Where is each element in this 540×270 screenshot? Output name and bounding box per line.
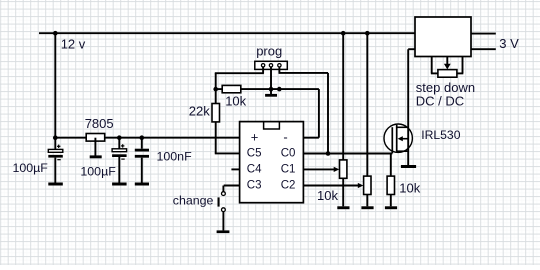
wire R3 bottom <box>390 195 392 207</box>
svg-text:C1: C1 <box>281 163 296 175</box>
resistor R3 10k body <box>387 176 394 194</box>
ground switch <box>217 230 230 233</box>
capacitor 100uF #2 plus sign <box>121 145 124 147</box>
node cap1 junction <box>53 135 58 140</box>
wire 22k to C5 <box>215 122 217 153</box>
transistor Q1 body arrow <box>398 136 403 141</box>
svg-text:12 v: 12 v <box>61 36 86 51</box>
svg-text:prog: prog <box>256 44 282 59</box>
capacitor 100uF #1 plus sign <box>57 145 60 147</box>
transistor Q1 body stub <box>400 138 408 140</box>
wire cap2 top lead <box>118 138 120 149</box>
svg-text:C5: C5 <box>247 147 262 159</box>
capacitor 100uF #2 minus sign <box>121 158 124 160</box>
svg-text:100µF: 100µF <box>13 161 49 175</box>
node pot1 rail junction <box>341 31 346 36</box>
capacitor 100uF #2 plus plate <box>112 149 127 152</box>
wiper arrow pot2 <box>358 183 364 188</box>
ground cap2 <box>112 183 127 186</box>
transistor Q1 gate bar <box>391 127 393 153</box>
transistor Q1 IRL530 circle <box>384 124 412 152</box>
svg-text:IRL530: IRL530 <box>421 128 461 142</box>
svg-text:100nF: 100nF <box>157 150 193 164</box>
node pot2 rail junction <box>365 31 370 36</box>
potentiometer pot1 body <box>340 160 347 178</box>
ground cap1 <box>48 183 63 186</box>
wire +5V rail <box>55 137 239 139</box>
wire prog pin2 to gnd <box>270 67 272 94</box>
wire cap3 top lead <box>141 138 143 149</box>
svg-text:change: change <box>173 194 214 208</box>
capacitor 100uF #1 plus plate <box>48 149 63 152</box>
svg-text:10k: 10k <box>225 94 246 109</box>
trimmer wiper stem <box>446 57 448 65</box>
capacitor 100uF #1 minus plate <box>48 155 63 158</box>
wire module out1 <box>471 33 496 35</box>
wire C3 to switch <box>222 186 224 192</box>
ground pot1 <box>337 206 349 209</box>
node mystery junction <box>277 87 282 92</box>
svg-text:C3: C3 <box>247 179 262 191</box>
ground Q1 source <box>401 165 416 168</box>
wire 12V top rail <box>39 32 415 34</box>
wire cap1 top lead <box>54 138 56 150</box>
switch change lever <box>218 197 220 206</box>
wire module left pin2 <box>408 48 415 50</box>
wire drain/source vertical <box>407 49 409 165</box>
node cap3 junction <box>140 135 145 140</box>
wire C0 to gate <box>303 153 392 155</box>
switch change contact bottom <box>222 208 226 212</box>
IC U1 body <box>240 122 304 203</box>
svg-text:+: + <box>251 129 259 144</box>
connector prog pin2 <box>269 64 272 67</box>
wire C1 wiper <box>303 168 334 170</box>
ground R3 <box>385 206 397 209</box>
wire 12V drop <box>54 33 56 138</box>
capacitor 100uF #1 minus sign <box>57 159 60 161</box>
connector prog pin3 <box>278 64 281 67</box>
wire 7805 gnd pin <box>94 138 96 156</box>
wire 10k left lead <box>216 88 223 90</box>
wire pot2 top <box>366 33 368 176</box>
wiper arrow pot1 <box>334 167 340 172</box>
wire pot2 bottom <box>366 195 368 207</box>
switch change contact top <box>222 192 226 196</box>
capacitor 100nF bottom plate <box>135 155 149 158</box>
node C0/prog junction <box>326 151 331 156</box>
wire cap2 bottom lead <box>118 157 120 183</box>
pin C3 stub <box>224 185 240 187</box>
wire prog pin1 to 22k <box>262 67 264 73</box>
svg-text:DC / DC: DC / DC <box>416 93 464 108</box>
svg-text:C0: C0 <box>281 147 296 159</box>
transistor Q1 source stub <box>397 150 409 152</box>
transistor Q1 channel bar <box>396 125 398 152</box>
wire C2 wiper <box>303 185 358 187</box>
trimmer left leg <box>431 57 433 74</box>
svg-text:3 V: 3 V <box>499 36 519 51</box>
wire pot1 bottom <box>342 178 344 206</box>
ground pot2 <box>361 206 373 209</box>
trimmer right leg <box>462 57 464 74</box>
wire pot1 top <box>342 33 344 160</box>
potentiometer pot2 body <box>364 176 371 194</box>
resistor 10k top body <box>222 85 241 92</box>
wire prog pin3 to C0 node <box>278 67 280 73</box>
ground prog <box>265 94 277 97</box>
wire module out2 <box>471 48 496 50</box>
node prog gnd junction <box>269 87 274 92</box>
svg-text:10k: 10k <box>317 188 338 203</box>
svg-text:7805: 7805 <box>85 116 114 131</box>
connector prog body <box>255 61 287 69</box>
wire 10k right lead to IC minus <box>241 88 319 90</box>
wire cap3 bottom lead <box>141 158 143 183</box>
svg-text:10k: 10k <box>399 181 420 196</box>
wire cap1 bottom lead <box>54 158 56 183</box>
node cap2 junction <box>117 135 122 140</box>
ground 7805 <box>90 155 102 158</box>
ground cap3 <box>135 183 149 186</box>
svg-text:22k: 22k <box>189 104 210 119</box>
pin C4 stub <box>231 168 239 170</box>
wire switch to gnd <box>222 212 224 231</box>
svg-text:100µF: 100µF <box>80 164 116 178</box>
node 12V rail junction <box>53 31 58 36</box>
transistor Q1 drain stub <box>397 126 409 128</box>
connector prog pin1 <box>261 64 264 67</box>
svg-text:C4: C4 <box>247 163 262 175</box>
regulator U2 7805 body <box>86 134 105 142</box>
node prog/10k junction <box>213 87 218 92</box>
wire R3 top <box>390 154 392 177</box>
capacitor 100nF top plate <box>135 149 149 152</box>
svg-text:-: - <box>283 129 287 144</box>
module step-down body <box>415 17 471 57</box>
trimmer body <box>438 70 457 78</box>
IC U1 notch <box>264 122 280 129</box>
capacitor 100uF #2 minus plate <box>112 154 127 157</box>
resistor 22k body <box>212 104 220 122</box>
trimmer wiper arrow <box>444 64 451 70</box>
svg-text:C2: C2 <box>281 179 296 191</box>
